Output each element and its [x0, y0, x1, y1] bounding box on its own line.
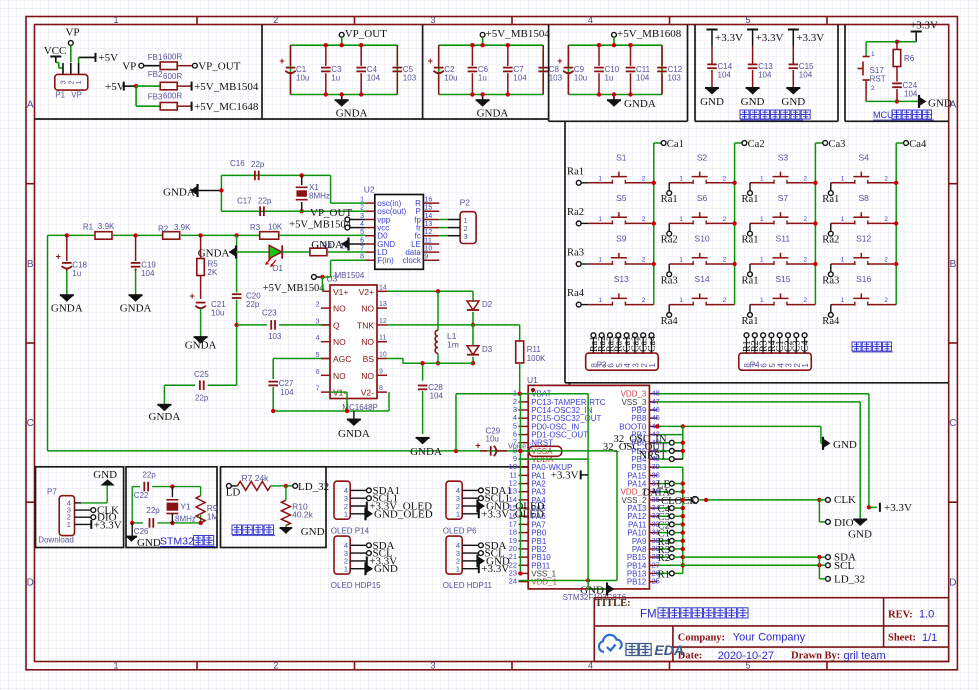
- svg-text:P7: P7: [47, 487, 57, 496]
- svg-text:600R: 600R: [163, 72, 182, 81]
- svg-text:104: 104: [513, 74, 527, 83]
- svg-text:2: 2: [642, 216, 646, 223]
- svg-text:GND: GND: [137, 537, 161, 549]
- svg-text:+3.3V: +3.3V: [94, 519, 122, 531]
- svg-text:LD_32: LD_32: [298, 481, 329, 493]
- svg-text:1: 1: [598, 175, 602, 182]
- svg-text:2: 2: [723, 297, 727, 304]
- svg-text:STM32: STM32: [160, 536, 194, 548]
- svg-text:R7 24k: R7 24k: [242, 473, 270, 483]
- svg-text:14: 14: [425, 213, 433, 220]
- svg-text:VP_OUT: VP_OUT: [345, 28, 387, 40]
- svg-text:P1: P1: [55, 91, 65, 100]
- svg-text:GNDA: GNDA: [624, 98, 656, 110]
- svg-text:BS: BS: [363, 354, 375, 364]
- svg-text:Ra1: Ra1: [661, 194, 678, 205]
- svg-text:S11: S11: [776, 234, 791, 244]
- svg-text:4: 4: [588, 15, 593, 25]
- svg-text:2: 2: [642, 257, 646, 264]
- svg-text:10u: 10u: [296, 74, 309, 83]
- svg-text:OLED P14: OLED P14: [331, 526, 370, 535]
- svg-text:6: 6: [316, 369, 320, 376]
- svg-text:Drawn By:: Drawn By:: [791, 651, 840, 662]
- svg-text:C: C: [27, 418, 34, 429]
- svg-text:S2: S2: [697, 152, 708, 162]
- svg-text:S5: S5: [616, 193, 627, 203]
- svg-text:4: 4: [360, 221, 364, 228]
- svg-text:Ra4: Ra4: [822, 316, 840, 327]
- svg-text:+5V_MB1608: +5V_MB1608: [617, 28, 682, 40]
- svg-text:+: +: [189, 291, 194, 301]
- svg-text:2: 2: [723, 216, 727, 223]
- svg-text:3: 3: [430, 15, 435, 25]
- svg-text:2: 2: [871, 85, 875, 92]
- svg-text:Ra1: Ra1: [741, 275, 758, 286]
- svg-text:VP_OUT: VP_OUT: [198, 61, 240, 73]
- svg-text:FB1: FB1: [148, 53, 163, 62]
- svg-text:OLED HDP11: OLED HDP11: [443, 581, 493, 590]
- svg-text:S1: S1: [616, 152, 627, 162]
- svg-text:VP: VP: [65, 27, 79, 39]
- svg-text:5: 5: [745, 15, 750, 25]
- svg-text:1: 1: [344, 565, 348, 574]
- svg-text:U3: U3: [327, 274, 338, 284]
- svg-text:1m: 1m: [447, 340, 459, 350]
- svg-text:103: 103: [668, 74, 682, 83]
- svg-text:C: C: [949, 418, 956, 429]
- svg-text:C26: C26: [134, 527, 149, 536]
- svg-text:+3.3V: +3.3V: [481, 563, 509, 575]
- svg-text:REV:: REV:: [888, 610, 913, 621]
- svg-text:104: 104: [636, 74, 650, 83]
- svg-text:104: 104: [904, 90, 918, 99]
- svg-text:S6: S6: [697, 193, 708, 203]
- svg-text:103: 103: [403, 74, 417, 83]
- svg-text:GNDA: GNDA: [311, 239, 343, 251]
- svg-text:+3.3V: +3.3V: [756, 32, 784, 44]
- svg-text:+: +: [557, 56, 562, 66]
- svg-text:22p: 22p: [251, 160, 265, 169]
- svg-text:GNDA: GNDA: [410, 446, 442, 458]
- svg-text:NO: NO: [333, 337, 346, 347]
- svg-text:S4: S4: [858, 152, 869, 162]
- svg-text:12: 12: [425, 229, 433, 236]
- svg-text:P3: P3: [597, 361, 607, 370]
- svg-text:+5V_MC1648: +5V_MC1648: [194, 101, 259, 113]
- svg-text:+3.3V: +3.3V: [715, 32, 743, 44]
- svg-text:Your Company: Your Company: [733, 632, 806, 644]
- svg-text:10K: 10K: [268, 223, 283, 232]
- svg-text:D1: D1: [273, 264, 284, 273]
- svg-text:Ca2: Ca2: [748, 139, 765, 150]
- svg-text:2: 2: [642, 297, 646, 304]
- svg-text:8MHz: 8MHz: [175, 514, 196, 523]
- svg-text:2: 2: [803, 175, 807, 182]
- svg-text:R1: R1: [658, 569, 670, 580]
- svg-text:+: +: [56, 251, 61, 261]
- svg-text:P2: P2: [460, 198, 471, 208]
- svg-text:D2: D2: [482, 300, 493, 309]
- svg-text:Ra1: Ra1: [741, 235, 758, 246]
- svg-text:2: 2: [803, 297, 807, 304]
- svg-text:1: 1: [679, 216, 683, 223]
- svg-text:1M: 1M: [207, 512, 219, 522]
- svg-text:Ra1: Ra1: [822, 194, 839, 205]
- svg-text:2: 2: [884, 216, 888, 223]
- svg-text:1u: 1u: [478, 74, 487, 83]
- svg-text:2: 2: [723, 257, 727, 264]
- svg-text:NO: NO: [361, 371, 374, 381]
- svg-text:Company:: Company:: [678, 632, 725, 643]
- svg-text:1: 1: [679, 257, 683, 264]
- svg-text:GND_OLED: GND_OLED: [374, 508, 433, 520]
- svg-text:3.9K: 3.9K: [174, 223, 191, 232]
- svg-text:FB3: FB3: [148, 93, 163, 102]
- svg-text:GNDA: GNDA: [336, 107, 368, 119]
- svg-text:S10: S10: [695, 234, 710, 244]
- svg-text:GND: GND: [781, 96, 805, 108]
- svg-text:1: 1: [760, 216, 764, 223]
- svg-text:1: 1: [871, 51, 875, 58]
- svg-text:2: 2: [360, 205, 364, 212]
- svg-text:Sheet:: Sheet:: [888, 633, 916, 644]
- svg-text:NRST: NRST: [639, 450, 667, 461]
- svg-text:1.0: 1.0: [919, 609, 934, 621]
- svg-text:+3.3V: +3.3V: [796, 32, 824, 44]
- svg-text:GND: GND: [741, 96, 765, 108]
- svg-text:GNDA: GNDA: [51, 302, 83, 314]
- svg-text:1: 1: [360, 197, 364, 204]
- svg-text:600R: 600R: [163, 53, 182, 62]
- svg-text:S16: S16: [856, 274, 871, 284]
- svg-text:3: 3: [316, 318, 320, 325]
- svg-text:1: 1: [344, 510, 348, 519]
- svg-text:FM: FM: [640, 609, 657, 621]
- svg-text:1: 1: [113, 660, 118, 670]
- svg-text:+3.3V_OLED: +3.3V_OLED: [481, 508, 544, 520]
- svg-text:13: 13: [425, 221, 433, 228]
- svg-text:B: B: [27, 259, 34, 270]
- svg-text:TNK: TNK: [357, 320, 374, 330]
- svg-text:+3.3V: +3.3V: [910, 20, 938, 32]
- svg-text:C4: C4: [800, 340, 811, 352]
- svg-text:22p: 22p: [258, 197, 272, 206]
- svg-text:C27: C27: [279, 379, 294, 388]
- svg-text:2: 2: [884, 175, 888, 182]
- svg-text:Ra4: Ra4: [567, 288, 585, 299]
- svg-text:1/1: 1/1: [922, 632, 937, 644]
- svg-text:104: 104: [758, 70, 772, 79]
- svg-text:S3: S3: [778, 152, 789, 162]
- svg-text:R6: R6: [904, 54, 915, 63]
- svg-text:1: 1: [456, 565, 460, 574]
- svg-text:10u: 10u: [486, 435, 499, 444]
- svg-text:GNDA: GNDA: [185, 339, 217, 351]
- svg-text:S8: S8: [858, 193, 869, 203]
- svg-text:2: 2: [273, 15, 278, 25]
- svg-text:C23: C23: [262, 309, 277, 318]
- svg-text:2: 2: [884, 297, 888, 304]
- svg-text:1: 1: [598, 257, 602, 264]
- svg-text:1: 1: [760, 175, 764, 182]
- svg-text:4: 4: [588, 660, 593, 670]
- svg-text:GND: GND: [928, 98, 952, 110]
- svg-text:OLED P6: OLED P6: [443, 526, 477, 535]
- svg-text:LD: LD: [226, 487, 241, 499]
- svg-text:Ra2: Ra2: [567, 207, 584, 218]
- svg-text:TITLE:: TITLE:: [595, 598, 631, 609]
- svg-text:1: 1: [760, 297, 764, 304]
- svg-text:1: 1: [113, 15, 118, 25]
- svg-text:RST: RST: [870, 75, 886, 84]
- svg-text:GND: GND: [848, 529, 872, 541]
- svg-text:11: 11: [425, 238, 432, 245]
- svg-text:VP: VP: [122, 61, 136, 73]
- svg-text:1: 1: [67, 520, 71, 529]
- svg-text:40.2k: 40.2k: [292, 510, 314, 520]
- svg-text:C28: C28: [428, 383, 443, 392]
- svg-text:C24: C24: [903, 81, 918, 90]
- svg-text:100K: 100K: [527, 354, 546, 363]
- svg-text:Ra3: Ra3: [822, 275, 839, 286]
- svg-text:R11: R11: [527, 345, 542, 354]
- svg-text:12: 12: [379, 318, 387, 325]
- svg-text:C25: C25: [194, 370, 209, 379]
- svg-text:1: 1: [801, 363, 810, 368]
- svg-text:+: +: [279, 56, 284, 66]
- svg-text:CLOCK: CLOCK: [661, 496, 697, 507]
- svg-text:U2: U2: [364, 185, 375, 195]
- svg-text:+5V: +5V: [105, 81, 125, 93]
- svg-text:22p: 22p: [142, 471, 156, 480]
- svg-text:NO: NO: [333, 304, 346, 314]
- svg-text:2: 2: [273, 660, 278, 670]
- svg-text:24: 24: [509, 577, 517, 586]
- svg-text:7: 7: [360, 246, 364, 253]
- svg-text:2020-10-27: 2020-10-27: [718, 650, 774, 662]
- svg-text:2: 2: [803, 257, 807, 264]
- svg-text:1: 1: [456, 510, 460, 519]
- svg-text:15: 15: [425, 205, 433, 212]
- svg-text:1: 1: [598, 297, 602, 304]
- svg-text:C17: C17: [237, 197, 252, 206]
- svg-text:FB2: FB2: [148, 70, 163, 79]
- svg-text:10u: 10u: [574, 74, 587, 83]
- svg-text:+5V: +5V: [98, 52, 118, 64]
- svg-text:9: 9: [425, 254, 429, 261]
- svg-text:Q: Q: [333, 320, 340, 330]
- svg-text:S13: S13: [614, 274, 629, 284]
- svg-text:103: 103: [268, 332, 282, 341]
- svg-text:1: 1: [841, 257, 845, 264]
- svg-text:2: 2: [642, 175, 646, 182]
- svg-text:7: 7: [316, 386, 320, 393]
- svg-text:104: 104: [799, 70, 813, 79]
- svg-text:Ra3: Ra3: [661, 275, 678, 286]
- svg-text:+3.3V: +3.3V: [551, 470, 579, 482]
- svg-text:+5V_MB1504: +5V_MB1504: [486, 28, 551, 40]
- svg-text:1: 1: [74, 80, 83, 84]
- svg-text:SCL: SCL: [834, 560, 854, 572]
- svg-text:600R: 600R: [163, 92, 182, 101]
- svg-text:R1: R1: [83, 223, 94, 232]
- svg-text:+5V_MB1504: +5V_MB1504: [289, 220, 352, 231]
- svg-text:D3: D3: [482, 345, 493, 354]
- svg-text:V1+: V1+: [333, 287, 348, 297]
- svg-text:22p: 22p: [195, 394, 209, 403]
- svg-text:Ca3: Ca3: [828, 139, 845, 150]
- svg-text:104: 104: [718, 70, 732, 79]
- svg-text:Download: Download: [38, 536, 74, 545]
- svg-text:+: +: [428, 56, 433, 66]
- svg-text:gril team: gril team: [844, 650, 886, 662]
- svg-text:S9: S9: [616, 234, 627, 244]
- svg-text:14: 14: [379, 284, 387, 291]
- svg-text:NO: NO: [361, 304, 374, 314]
- svg-text:1: 1: [841, 297, 845, 304]
- svg-text:22p: 22p: [146, 506, 160, 515]
- svg-text:GNDA: GNDA: [198, 247, 230, 259]
- svg-text:1: 1: [841, 175, 845, 182]
- svg-text:GND: GND: [93, 469, 117, 481]
- svg-text:1: 1: [841, 216, 845, 223]
- svg-text:V2+: V2+: [359, 287, 374, 297]
- svg-text:1: 1: [648, 363, 657, 368]
- svg-text:4: 4: [316, 335, 320, 342]
- svg-text:GND: GND: [833, 439, 857, 451]
- svg-text:OLED HDP15: OLED HDP15: [331, 581, 381, 590]
- svg-text:Ra1: Ra1: [741, 194, 758, 205]
- svg-text:V2-: V2-: [361, 388, 374, 398]
- svg-text:1: 1: [760, 257, 764, 264]
- svg-text:S14: S14: [695, 274, 710, 284]
- svg-text:VP: VP: [71, 91, 82, 100]
- svg-text:8: 8: [379, 385, 383, 392]
- svg-text:A: A: [27, 100, 34, 111]
- svg-text:8MHz: 8MHz: [309, 192, 330, 201]
- svg-text:R2: R2: [658, 553, 670, 564]
- svg-text:B: B: [950, 259, 957, 270]
- svg-text:3: 3: [360, 213, 364, 220]
- svg-text:5: 5: [360, 229, 364, 236]
- svg-text:3: 3: [464, 232, 468, 241]
- svg-text:1: 1: [679, 175, 683, 182]
- svg-text:+5V_MB1504: +5V_MB1504: [263, 283, 326, 294]
- svg-text:clock: clock: [403, 256, 422, 265]
- svg-text:104: 104: [141, 269, 155, 278]
- svg-text:10u: 10u: [211, 309, 224, 318]
- svg-text:3.9K: 3.9K: [98, 222, 115, 231]
- svg-text:AGC: AGC: [333, 354, 351, 364]
- svg-text:MB1504: MB1504: [335, 271, 365, 280]
- svg-text:1u: 1u: [605, 74, 614, 83]
- svg-text:Ca4: Ca4: [647, 336, 658, 352]
- svg-text:S7: S7: [778, 193, 789, 203]
- svg-text:104: 104: [367, 74, 381, 83]
- svg-text:2: 2: [803, 216, 807, 223]
- svg-text:Y1: Y1: [180, 501, 191, 511]
- svg-text:F(in): F(in): [377, 256, 394, 265]
- svg-text:GNDA: GNDA: [338, 428, 370, 440]
- svg-text:VCC: VCC: [44, 45, 67, 57]
- svg-text:1: 1: [598, 216, 602, 223]
- svg-text:GNDA: GNDA: [149, 411, 181, 423]
- svg-text:1: 1: [679, 297, 683, 304]
- svg-text:+5V_MB1504: +5V_MB1504: [194, 81, 259, 93]
- svg-text:MCU: MCU: [873, 110, 894, 120]
- svg-text:Ra3: Ra3: [567, 248, 584, 259]
- svg-text:U1: U1: [527, 375, 538, 385]
- svg-text:Ra2: Ra2: [661, 235, 678, 246]
- svg-text:Ra4: Ra4: [661, 316, 679, 327]
- svg-text:P4: P4: [750, 361, 760, 370]
- svg-text:GNDA: GNDA: [163, 186, 195, 198]
- svg-text:10u: 10u: [444, 74, 457, 83]
- svg-text:EDA: EDA: [654, 642, 684, 658]
- svg-text:22p: 22p: [246, 300, 260, 309]
- svg-text:GND: GND: [580, 585, 604, 597]
- svg-text:C22: C22: [134, 491, 149, 500]
- svg-text:2: 2: [884, 257, 888, 264]
- svg-text:2: 2: [723, 175, 727, 182]
- svg-text:Ra1: Ra1: [741, 316, 758, 327]
- svg-text:GNDA: GNDA: [477, 107, 509, 119]
- svg-text:S12: S12: [856, 234, 871, 244]
- svg-text:1u: 1u: [331, 74, 340, 83]
- svg-text:103: 103: [549, 74, 563, 83]
- svg-text:GND: GND: [301, 526, 325, 538]
- svg-text:S15: S15: [775, 274, 790, 284]
- svg-text:NO: NO: [361, 337, 374, 347]
- svg-text:2: 2: [316, 302, 320, 309]
- svg-text:11: 11: [379, 335, 386, 342]
- svg-text:104: 104: [430, 392, 444, 401]
- svg-text:GNDA: GNDA: [120, 302, 152, 314]
- svg-text:10: 10: [425, 246, 433, 253]
- svg-text:D: D: [27, 577, 34, 588]
- svg-text:Ra2: Ra2: [822, 235, 839, 246]
- svg-text:1u: 1u: [72, 269, 81, 278]
- svg-text:Ca4: Ca4: [909, 139, 927, 150]
- svg-text:13: 13: [379, 301, 387, 308]
- svg-text:Ra1: Ra1: [567, 166, 584, 177]
- svg-text:6: 6: [360, 238, 364, 245]
- svg-text:GND: GND: [700, 96, 724, 108]
- svg-text:+3.3V: +3.3V: [884, 502, 912, 514]
- svg-text:C16: C16: [230, 159, 245, 168]
- svg-text:10: 10: [379, 352, 387, 359]
- svg-text:GND: GND: [374, 563, 398, 575]
- svg-text:DIO: DIO: [834, 517, 854, 529]
- svg-text:2K: 2K: [208, 268, 218, 277]
- svg-text:NO: NO: [333, 371, 346, 381]
- svg-text:D: D: [949, 577, 956, 588]
- svg-text:3: 3: [430, 660, 435, 670]
- svg-text:9: 9: [379, 368, 383, 375]
- svg-text:16: 16: [425, 197, 433, 204]
- svg-text:R3: R3: [250, 223, 261, 232]
- svg-text:PB12: PB12: [627, 578, 647, 587]
- svg-text:VDD_1: VDD_1: [531, 578, 557, 587]
- svg-text:R2: R2: [158, 225, 169, 234]
- svg-text:LD_32: LD_32: [834, 573, 865, 585]
- svg-text:Ca1: Ca1: [667, 139, 684, 150]
- svg-text:104: 104: [280, 388, 294, 397]
- svg-text:CLK: CLK: [834, 494, 856, 506]
- svg-text:+: +: [475, 441, 480, 451]
